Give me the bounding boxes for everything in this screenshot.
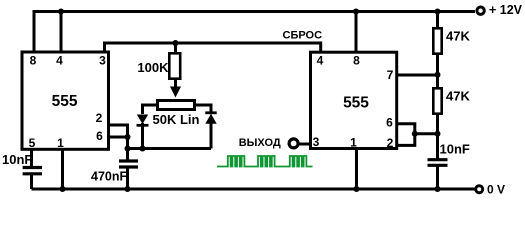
svg-text:6: 6 xyxy=(96,129,103,143)
node junction top rail / pin4 xyxy=(58,9,64,15)
wire diode bottom line xyxy=(128,147,212,150)
svg-text:4: 4 xyxy=(317,54,324,68)
wire left vertical to pin 8 xyxy=(33,10,36,52)
wire top +12V rail xyxy=(33,10,476,13)
resistor R2 47K body xyxy=(433,28,441,53)
node junction СБРОС / 100K xyxy=(173,40,179,46)
svg-text:50K Lin: 50K Lin xyxy=(153,112,200,127)
wire pin 5 to C1 xyxy=(30,149,33,167)
node junction pin7 / resistors xyxy=(435,72,441,78)
wire between resistors xyxy=(436,54,439,88)
potentiometer RV1 body xyxy=(158,101,195,110)
resistor R2 47K top wire xyxy=(436,12,439,29)
diode D2 (points up) xyxy=(205,111,216,114)
resistor R3 47K body xyxy=(433,88,441,113)
svg-text:1: 1 xyxy=(350,136,357,150)
wire D1 to node line xyxy=(141,123,144,149)
wire C2 to rail xyxy=(126,167,129,189)
node junction rail / C2 xyxy=(125,186,131,192)
wire pin 6 stub xyxy=(109,136,128,139)
wire R3 bottom to cap xyxy=(436,114,439,159)
svg-text:100K: 100K xyxy=(137,60,169,75)
svg-text:4: 4 xyxy=(56,54,63,68)
node junction divider / cap xyxy=(435,131,441,137)
svg-text:8: 8 xyxy=(30,54,37,68)
node junction line / D1 xyxy=(140,146,146,152)
svg-text:2: 2 xyxy=(96,111,103,125)
svg-text:3: 3 xyxy=(99,54,106,68)
terminal +12V xyxy=(477,7,484,14)
wire C1 to rail xyxy=(30,174,33,189)
svg-text:8: 8 xyxy=(353,54,360,68)
svg-text:47K: 47K xyxy=(446,89,470,104)
wire pin 6 stub right IC xyxy=(397,124,415,146)
svg-text:СБРОС: СБРОС xyxy=(283,30,323,42)
node junction top rail / 47K xyxy=(435,9,441,15)
node junction rail / C3 xyxy=(435,186,441,192)
node junction top rail / right IC pin8 xyxy=(353,9,359,15)
op-amp U2 right 555 body xyxy=(311,52,397,148)
node junction rail / right pin1 xyxy=(354,186,360,192)
node junction rail / pin1 xyxy=(60,186,66,192)
wire pin 7 stub xyxy=(397,74,438,77)
svg-text:10nF: 10nF xyxy=(2,152,32,167)
svg-text:470nF: 470nF xyxy=(91,170,127,184)
wire output terminal to pin 3 xyxy=(299,143,312,146)
node junction line / vertical xyxy=(125,146,131,152)
svg-text:+ 12V: + 12V xyxy=(489,3,523,17)
wire pin 1 to rail xyxy=(61,149,64,189)
svg-text:0 V: 0 V xyxy=(487,182,505,196)
svg-text:555: 555 xyxy=(52,93,78,110)
svg-text:10nF: 10nF xyxy=(440,141,470,156)
svg-text:6: 6 xyxy=(386,115,393,129)
capacitor C2 470nF plates xyxy=(119,159,138,162)
wire C3 to rail xyxy=(436,165,439,189)
wire wiper arrow xyxy=(174,80,177,88)
capacitor C3 10nF plates xyxy=(428,158,448,161)
wire pin 4 vertical xyxy=(60,12,63,53)
wire pot right terminal xyxy=(196,105,211,112)
terminal ВЫХОД xyxy=(289,139,298,148)
svg-text:3: 3 xyxy=(313,135,320,149)
svg-text:7: 7 xyxy=(387,68,394,82)
wire pin 2 stub xyxy=(109,125,128,160)
svg-text:47K: 47K xyxy=(446,28,470,43)
svg-text:5: 5 xyxy=(29,136,36,150)
svg-text:2: 2 xyxy=(387,136,394,150)
resistor R1 100K body xyxy=(169,53,180,78)
wire pot left terminal xyxy=(143,105,157,114)
terminal 0V xyxy=(476,186,483,193)
node junction 6-2 tie xyxy=(412,131,418,137)
wire D2 to node line xyxy=(210,123,213,149)
waveform output (green) xyxy=(217,156,313,167)
wire СБРОС net: left pin3 up, across, down to right pin4 xyxy=(105,43,321,52)
wire right IC pin 8 vertical xyxy=(355,12,358,53)
op-amp U1 left 555 body xyxy=(22,52,109,149)
svg-text:ВЫХОД: ВЫХОД xyxy=(239,137,281,149)
svg-text:555: 555 xyxy=(343,95,369,112)
svg-text:1: 1 xyxy=(57,136,64,150)
wire right IC pin 1 to rail xyxy=(355,148,358,189)
resistor R1 100K wires xyxy=(174,43,177,53)
diode D1 (points down) xyxy=(137,115,148,125)
wire bottom 0V rail xyxy=(32,188,475,191)
node junction pin6 / vertical xyxy=(125,134,131,140)
wire 6-2 node to 47K/10nF node xyxy=(415,132,438,135)
capacitor C1 10nF plates xyxy=(23,166,42,169)
